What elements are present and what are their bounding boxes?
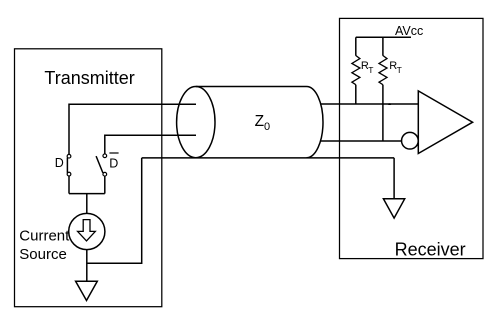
receiver box (340, 18, 484, 258)
wire junction bar (69, 193, 105, 195)
ground (receiver) (383, 199, 404, 218)
wire top signal line (transmitter to line) (69, 104, 196, 154)
svg-text:D: D (55, 156, 64, 170)
transmission line left ellipse (177, 87, 215, 158)
wire return branch (87, 158, 142, 263)
wire ground return (under line) (142, 157, 394, 159)
wire to current source (86, 194, 88, 214)
switch D-bar (103, 154, 107, 158)
svg-text:0: 0 (264, 121, 270, 133)
svg-text:T: T (368, 65, 373, 75)
inversion bubble (402, 132, 419, 149)
current source I1 (69, 213, 105, 249)
svg-text:T: T (397, 65, 402, 75)
svg-text:Transmitter: Transmitter (44, 68, 134, 88)
wire switch D bottom (68, 176, 70, 194)
transmission line top (196, 86, 307, 88)
svg-text:Source: Source (19, 246, 67, 263)
op-amp U1 (418, 91, 472, 154)
transmission line right end arc (307, 87, 324, 158)
transmitter box (15, 49, 162, 307)
wire second signal line (transmitter to line) (105, 135, 196, 154)
svg-text:Receiver: Receiver (395, 240, 466, 260)
svg-text:Z: Z (255, 113, 264, 130)
svg-text:Current: Current (19, 227, 70, 244)
power rail AVcc (356, 36, 411, 38)
resistor RT1 drop wire (355, 37, 357, 55)
svg-text:D: D (109, 156, 118, 170)
ground (transmitter) (76, 281, 98, 300)
wire plus input line (321, 103, 419, 105)
wire RT1 to plus line (355, 85, 357, 104)
switch D (67, 154, 71, 158)
svg-text:AVcc: AVcc (395, 24, 423, 38)
junction mark (388, 103, 392, 105)
resistor RT2 (379, 56, 387, 85)
resistor RT2 drop wire (382, 37, 384, 55)
wire minus input line (321, 140, 402, 142)
wire RT2 to minus line (382, 85, 384, 141)
wire switch D-bar bottom (104, 176, 106, 194)
resistor RT1 (352, 56, 360, 85)
wire current source to ground (86, 250, 88, 281)
wire receiver ground drop (393, 158, 395, 199)
